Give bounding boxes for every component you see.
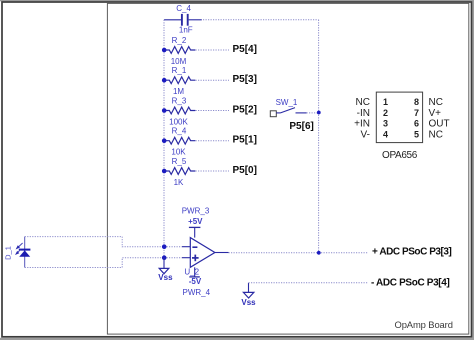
svg-text:10K: 10K [171,148,186,157]
svg-text:OUT: OUT [429,119,450,130]
wire to P5[1] [196,140,230,142]
resistor R_5 [164,157,195,187]
svg-text:P5[4]: P5[4] [233,44,257,55]
switch SW_1 [270,98,306,117]
op-amp U_2 [184,238,215,277]
svg-text:SW_1: SW_1 [276,98,298,107]
svg-text:3: 3 [383,119,388,129]
wire op-amp output [215,252,368,254]
power PWR_4 -5V [183,267,211,297]
svg-text:OpAmp Board: OpAmp Board [395,319,453,330]
wire to P5[3] [196,79,230,81]
svg-text:+IN: +IN [354,119,370,130]
svg-text:P5[6]: P5[6] [289,121,313,132]
ground Vss at - ADC net [241,283,256,307]
wire: right vertical dashed net [318,20,320,253]
svg-text:100K: 100K [169,118,188,127]
svg-text:+5V: +5V [188,217,203,226]
svg-text:U_2: U_2 [184,268,199,277]
svg-text:10M: 10M [171,57,187,66]
svg-text:C_4: C_4 [176,4,191,13]
svg-text:D_1: D_1 [4,246,13,260]
svg-text:P5[0]: P5[0] [233,165,257,176]
ground Vss at op-amp input [158,258,173,282]
svg-text:NC: NC [429,129,443,140]
wire from SW_1 to net [307,112,318,114]
wire to P5[4] [196,49,230,51]
svg-text:PWR_3: PWR_3 [182,207,210,216]
capacitor C4 left lead wire [164,19,181,21]
svg-text:1M: 1M [173,87,184,96]
svg-text:4: 4 [383,129,388,139]
resistor R_3 [164,96,195,126]
wire - ADC net [249,282,368,284]
svg-text:NC: NC [356,97,370,108]
svg-text:-5V: -5V [189,277,202,286]
capacitor C4 plates [182,14,188,26]
resistor R_1 [164,66,195,96]
svg-text:R_5: R_5 [172,157,187,166]
junction dots on left bus [162,48,167,174]
svg-text:V-: V- [361,129,370,140]
svg-text:R_4: R_4 [172,127,187,136]
resistor R_2 [164,36,195,66]
resistor R_4 [164,127,195,157]
svg-text:R_1: R_1 [172,66,187,75]
wire from D_1 top [25,237,164,247]
wire to inverting input [164,246,190,248]
svg-text:2: 2 [383,108,388,118]
svg-text:Vss: Vss [158,273,173,282]
junction dot output net [317,251,321,255]
wire: left vertical bus dashed [163,20,165,258]
svg-text:1K: 1K [174,178,184,187]
svg-text:OPA656: OPA656 [382,150,418,161]
IC U_1 OPA656 package outline [376,92,422,143]
wire to P5[0] [196,170,230,172]
wire: feedback top dashed from C4 to right vertical [203,19,319,21]
svg-text:- ADC PSoC P3[4]: - ADC PSoC P3[4] [371,278,450,289]
svg-text:R_3: R_3 [172,96,187,105]
svg-text:R_2: R_2 [172,36,187,45]
wire to non-inverting input [164,257,190,259]
power PWR_3 +5V [182,207,210,238]
junction dot non-inverting input [162,255,167,260]
svg-text:P5[1]: P5[1] [233,135,257,146]
svg-text:7: 7 [414,108,419,118]
junction dot inverting input [162,244,167,249]
svg-text:+ ADC PSoC P3[3]: + ADC PSoC P3[3] [372,246,452,257]
diode D_1 (LED) [4,237,31,268]
svg-text:NC: NC [429,97,443,108]
svg-text:PWR_4: PWR_4 [183,288,211,297]
wire to P5[2] [196,110,230,112]
svg-text:-IN: -IN [357,108,370,119]
svg-text:Vss: Vss [241,298,256,307]
junction dot at switch net [317,111,321,115]
wire from D_1 bottom [25,258,164,268]
svg-text:6: 6 [414,119,419,129]
svg-text:8: 8 [414,97,419,107]
capacitor C4 right lead wire [189,19,202,21]
svg-text:P5[2]: P5[2] [233,104,257,115]
svg-text:1: 1 [383,97,388,107]
svg-text:5: 5 [414,129,419,139]
svg-text:V+: V+ [429,108,442,119]
svg-text:P5[3]: P5[3] [233,74,257,85]
svg-text:1nF: 1nF [179,25,193,34]
